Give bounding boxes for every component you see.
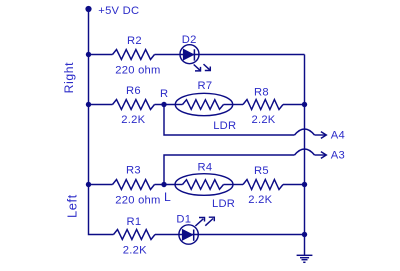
svg-text:2.2K: 2.2K xyxy=(248,194,272,206)
svg-text:LDR: LDR xyxy=(213,120,236,132)
resistor R6 xyxy=(113,85,155,126)
svg-text:D1: D1 xyxy=(176,213,191,225)
svg-text:Right: Right xyxy=(62,62,76,93)
svg-text:R8: R8 xyxy=(254,86,269,98)
svg-text:R5: R5 xyxy=(254,165,269,177)
resistor R8 xyxy=(243,86,283,126)
wire R1 to D1 xyxy=(155,234,179,236)
junction left rail R6 xyxy=(86,102,91,107)
svg-text:2.2K: 2.2K xyxy=(252,114,276,126)
resistor R2 xyxy=(113,35,161,77)
wire R7 to R8 xyxy=(233,104,243,106)
wire left rail to R6 xyxy=(89,104,113,106)
wire R4 to R5 xyxy=(233,184,243,186)
svg-text:R3: R3 xyxy=(126,165,141,177)
LDR R7 xyxy=(175,80,236,132)
resistor R3 xyxy=(113,165,161,207)
resistor R5 xyxy=(243,165,283,206)
wire D1 to ground rail xyxy=(198,234,304,236)
svg-text:L: L xyxy=(164,190,171,204)
node L xyxy=(161,182,171,204)
svg-text:220 ohm: 220 ohm xyxy=(115,64,160,76)
svg-text:A4: A4 xyxy=(331,129,345,141)
wire left +5V rail xyxy=(89,9,114,235)
resistor R1 xyxy=(114,216,156,256)
junction left rail R2 xyxy=(86,52,91,57)
wire right rail xyxy=(304,55,306,235)
junction right rail R5 xyxy=(302,182,307,187)
svg-text:R7: R7 xyxy=(198,80,213,92)
svg-text:2.2K: 2.2K xyxy=(121,114,145,126)
svg-text:220 ohm: 220 ohm xyxy=(115,194,160,206)
wire R6 to node R xyxy=(155,104,176,106)
wire hop A3 over rail xyxy=(295,149,315,155)
svg-text:R6: R6 xyxy=(126,85,141,97)
wire R5 to right rail xyxy=(283,184,305,186)
svg-text:R4: R4 xyxy=(198,162,213,174)
wire R2 to D2 xyxy=(155,54,181,56)
junction left rail R3 xyxy=(86,182,91,187)
svg-text:A3: A3 xyxy=(331,149,345,161)
arrow A4 xyxy=(315,129,345,141)
LDR R4 xyxy=(175,162,235,211)
svg-text:2.2K: 2.2K xyxy=(123,244,147,256)
wire hop A4 over rail xyxy=(295,129,315,135)
wire left rail to R2 xyxy=(89,54,113,56)
node R xyxy=(160,88,168,107)
wire D2 to right rail xyxy=(199,54,305,56)
LED D2 xyxy=(180,34,210,71)
wire R3 to node L xyxy=(155,184,176,186)
svg-text:R1: R1 xyxy=(127,216,142,228)
svg-text:D2: D2 xyxy=(182,34,197,46)
wire node R to A4 xyxy=(164,105,295,136)
svg-text:R: R xyxy=(160,88,168,100)
wire node L to A3 xyxy=(164,155,295,185)
LED D1 xyxy=(176,213,214,244)
svg-text:Left: Left xyxy=(64,194,79,218)
ground xyxy=(297,235,313,263)
power +5V node xyxy=(85,5,139,17)
svg-text:R2: R2 xyxy=(127,35,142,47)
junction right rail ground xyxy=(302,232,307,237)
arrow A3 xyxy=(315,149,345,161)
junction right rail R8 xyxy=(302,102,307,107)
wire left rail to R3 xyxy=(89,184,113,186)
svg-text:LDR: LDR xyxy=(212,198,235,210)
wire R8 to right rail xyxy=(283,104,305,106)
svg-text:+5V DC: +5V DC xyxy=(98,5,139,17)
